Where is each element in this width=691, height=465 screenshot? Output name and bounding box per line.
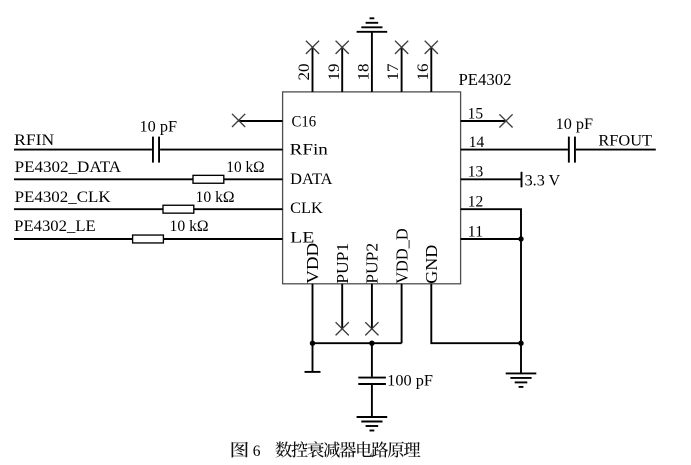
capacitor 10 pF (RF output) (569, 137, 575, 163)
no-connect X on pin 20 (306, 41, 319, 54)
svg-text:PE4302_DATA: PE4302_DATA (15, 159, 122, 176)
svg-text:CLK: CLK (290, 200, 323, 217)
wire PE4302_DATA to DATA pin (14, 178, 283, 180)
caption char 减 (324, 442, 340, 458)
wire PUP1 stub (no connect) (341, 284, 343, 329)
svg-text:DATA: DATA (290, 171, 333, 188)
svg-text:17: 17 (385, 63, 402, 80)
ground (bottom, bypass) (357, 417, 388, 431)
ground (right) (506, 373, 537, 387)
svg-text:PE4302_LE: PE4302_LE (14, 218, 96, 235)
svg-text:GND: GND (422, 245, 441, 284)
no-connect X on pin 15 (499, 114, 512, 127)
VDD supply terminal bar (305, 371, 321, 373)
wire supply rail VDD to VDD_D (313, 342, 402, 344)
wire rail down to bypass capacitor (371, 343, 373, 377)
caption char 数 (275, 442, 292, 458)
wire pin 11 down to right ground (520, 239, 522, 373)
svg-text:10 pF: 10 pF (556, 116, 594, 133)
figure caption: Fig 6 digital attenuator circuit schematic (232, 441, 421, 457)
no-connect X on pin 16 (425, 41, 438, 54)
svg-text:VDD: VDD (303, 243, 322, 284)
wire pin1 C16 stub (239, 120, 283, 122)
no-connect X on pin PUP2 (365, 322, 378, 335)
wire PE4302_LE to LE pin (14, 238, 283, 240)
wire RFIN to capacitor (14, 149, 152, 151)
svg-text:PE4302: PE4302 (459, 70, 512, 89)
svg-text:15: 15 (468, 105, 484, 122)
svg-text:PUP1: PUP1 (333, 243, 352, 284)
wire pin 12 over and down to pin 11 (461, 209, 521, 239)
wire capacitor to RFin pin (160, 149, 283, 151)
wire capacitor to RFOUT (576, 149, 656, 151)
wire VDD_D pin down to rail (401, 284, 403, 343)
wire pin 13 to 3.3 V supply (461, 178, 522, 180)
no-connect X on pin 19 (336, 41, 349, 54)
wire pin 18 to top ground (371, 32, 373, 92)
3.3 V supply terminal bar (521, 172, 523, 188)
caption char 图 (232, 442, 248, 458)
svg-text:PE4302_CLK: PE4302_CLK (15, 189, 112, 206)
svg-text:100 pF: 100 pF (387, 373, 433, 390)
svg-text:10 kΩ: 10 kΩ (170, 218, 209, 235)
capacitor 100 pF bypass (358, 378, 386, 384)
wire capacitor down to bottom ground (371, 385, 373, 417)
wire pin 14 to output capacitor (461, 149, 568, 151)
no-connect X on pin PUP1 (336, 322, 349, 335)
resistor 10 kOhm (CLK) (163, 205, 194, 213)
wire pin 11 (461, 238, 521, 240)
no-connect X on pin 17 (395, 41, 408, 54)
wire VDD supply stub (312, 343, 314, 372)
junction node rail/bypass capacitor (369, 341, 374, 346)
wire pin 15 stub (461, 120, 506, 122)
wire PE4302_CLK to CLK pin (14, 208, 283, 210)
svg-text:13: 13 (468, 164, 484, 181)
svg-text:11: 11 (468, 223, 484, 240)
caption char 器 (340, 442, 357, 458)
svg-text:14: 14 (469, 134, 485, 151)
IC U1 PE4302 body (283, 92, 461, 284)
svg-text:19: 19 (326, 63, 343, 80)
wire pin 17 stub (no connect) (401, 47, 403, 92)
junction node pin11/pin12 (518, 236, 523, 241)
svg-text:6: 6 (253, 443, 261, 460)
svg-text:20: 20 (296, 63, 313, 80)
caption char 理 (404, 442, 421, 457)
capacitor 10 pF (RF input) (153, 137, 159, 163)
wire PUP2 stub (no connect) (371, 284, 373, 329)
svg-text:PUP2: PUP2 (363, 243, 382, 284)
no-connect X on pin C16 (232, 114, 245, 127)
svg-text:3.3 V: 3.3 V (525, 172, 561, 189)
ground (top, pin 18) (357, 18, 388, 32)
caption char 原 (388, 442, 404, 458)
wire pin 16 stub (no connect) (430, 47, 432, 92)
svg-text:RFin: RFin (290, 142, 328, 159)
svg-text:C16: C16 (292, 114, 317, 131)
svg-text:16: 16 (415, 63, 432, 80)
caption char 电 (357, 441, 372, 457)
svg-text:10 kΩ: 10 kΩ (226, 159, 264, 176)
svg-text:VDD_D: VDD_D (392, 228, 411, 284)
caption char 控 (292, 441, 308, 457)
svg-text:10 kΩ: 10 kΩ (196, 189, 235, 206)
svg-text:10 pF: 10 pF (140, 118, 178, 135)
junction node GND/right ground (518, 341, 523, 346)
svg-text:18: 18 (356, 63, 373, 80)
caption char 路 (372, 441, 389, 457)
resistor 10 kOhm (LE) (133, 235, 164, 243)
svg-text:12: 12 (468, 194, 484, 211)
wire GND pin down and right to ground net (431, 284, 521, 343)
wire pin 19 stub (no connect) (341, 47, 343, 92)
svg-text:RFIN: RFIN (14, 132, 54, 149)
svg-text:RFOUT: RFOUT (598, 133, 652, 150)
wire VDD pin down to rail (312, 284, 314, 343)
caption char 衰 (308, 441, 324, 457)
junction node VDD/rail (310, 341, 315, 346)
resistor 10 kOhm (DATA) (193, 175, 224, 183)
wire pin 20 stub (no connect) (312, 47, 314, 92)
